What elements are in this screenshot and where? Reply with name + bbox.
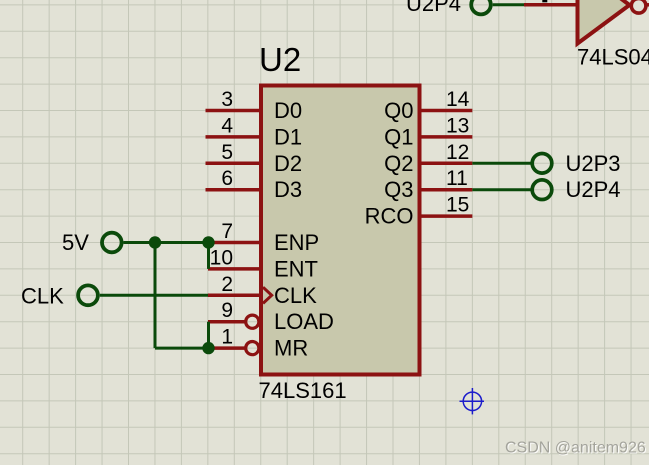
terminal CLK <box>78 285 98 305</box>
svg-text:U2P3: U2P3 <box>566 151 621 176</box>
pin 14 (Q0) stub <box>420 109 472 113</box>
wire Q2 to terminal <box>472 162 531 165</box>
svg-text:13: 13 <box>446 114 469 137</box>
svg-text:U2: U2 <box>259 41 301 78</box>
wire terminal to inverter input <box>493 3 526 6</box>
svg-text:Q3: Q3 <box>384 177 413 202</box>
inverter output pin stub <box>646 3 649 7</box>
inverter output bubble <box>631 0 646 13</box>
pin 6 (D3) stub <box>206 188 262 192</box>
wire CLK to pin 2 <box>100 294 208 297</box>
pin 13 (Q1) stub <box>420 135 472 139</box>
svg-text:D3: D3 <box>274 177 302 202</box>
svg-text:5: 5 <box>221 141 233 164</box>
svg-text:6: 6 <box>221 167 233 190</box>
origin crosshair marker <box>460 388 485 414</box>
junction at ENP <box>202 236 214 248</box>
svg-text:CLK: CLK <box>21 284 64 309</box>
terminal U2P4 <box>532 180 552 200</box>
wire across to MR junction <box>155 347 209 350</box>
pin 9 (LOAD) stub <box>208 320 246 324</box>
svg-text:2: 2 <box>221 273 233 296</box>
svg-text:12: 12 <box>446 141 469 164</box>
wire LOAD down to MR junction <box>207 322 210 348</box>
svg-text:3: 3 <box>221 88 233 111</box>
pin 10 (ENT) stub <box>208 267 261 271</box>
pin 15 (RCO) stub <box>420 214 472 218</box>
svg-text:D1: D1 <box>274 124 302 149</box>
svg-text:9: 9 <box>221 299 233 322</box>
terminal U2P4 (top) <box>471 0 491 14</box>
terminal U2P3 <box>532 154 552 174</box>
svg-text:MR: MR <box>274 336 308 361</box>
svg-text:7: 7 <box>221 220 233 243</box>
pin 4 (D1) stub <box>206 135 262 139</box>
svg-text:CLK: CLK <box>274 283 317 308</box>
pin 5 (D2) stub <box>206 162 262 166</box>
svg-text:11: 11 <box>446 167 468 190</box>
svg-text:15: 15 <box>446 194 469 217</box>
svg-text:Q1: Q1 <box>384 124 413 149</box>
inverter input pin stub <box>524 3 578 7</box>
wire Q3 to terminal <box>472 188 531 191</box>
svg-text:4: 4 <box>221 114 233 137</box>
svg-text:ENP: ENP <box>274 230 319 255</box>
clock input arrow <box>263 287 272 303</box>
svg-text:5V: 5V <box>62 230 89 255</box>
terminal 5V <box>102 233 122 253</box>
op body U1 rectangle <box>261 86 420 375</box>
junction at 5V branch <box>149 236 161 248</box>
svg-text:CSDN @anitem926: CSDN @anitem926 <box>505 440 646 457</box>
wire ENP junction down to ENT <box>207 243 210 269</box>
svg-text:ENT: ENT <box>274 256 318 281</box>
svg-text:D2: D2 <box>274 151 302 176</box>
pin 9 inversion bubble <box>246 315 259 328</box>
svg-text:1: 1 <box>221 326 233 349</box>
svg-text:U2P4: U2P4 <box>406 0 461 16</box>
svg-text:LOAD: LOAD <box>274 309 334 334</box>
svg-text:10: 10 <box>210 246 233 269</box>
svg-text:Q0: Q0 <box>384 98 413 123</box>
svg-text:U2P4: U2P4 <box>566 177 621 202</box>
inverter U3 74LS04 triangle <box>578 0 630 44</box>
svg-text:14: 14 <box>446 88 470 111</box>
pin 1 (MR) stub <box>208 346 246 350</box>
svg-text:74LS04: 74LS04 <box>577 45 649 70</box>
pin 3 (D0) stub <box>206 109 262 113</box>
inverter pin number (clipped) <box>542 0 547 2</box>
svg-text:Q2: Q2 <box>384 151 413 176</box>
svg-text:D0: D0 <box>274 98 302 123</box>
junction at MR <box>202 342 214 354</box>
svg-text:RCO: RCO <box>365 204 414 229</box>
wire down from 5V branch to MR row <box>154 243 157 349</box>
wire 5V to ENP <box>124 241 209 244</box>
pin 7 (ENP) stub <box>208 241 261 245</box>
pin 11 (Q3) stub <box>420 188 472 192</box>
pin 12 (Q2) stub <box>420 162 472 166</box>
svg-text:74LS161: 74LS161 <box>259 378 347 403</box>
pin 1 inversion bubble <box>246 342 259 355</box>
pin 2 (CLK) stub <box>208 294 261 298</box>
